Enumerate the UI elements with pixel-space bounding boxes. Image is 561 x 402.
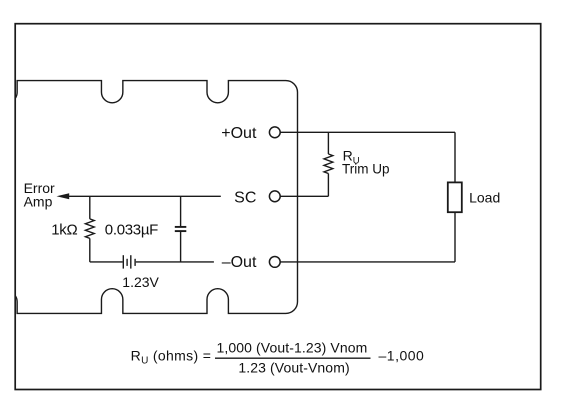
- svg-text:Trim Up: Trim Up: [342, 161, 390, 176]
- svg-text:Amp: Amp: [24, 193, 53, 209]
- svg-text:0.033µF: 0.033µF: [105, 222, 158, 239]
- svg-text:1.23V: 1.23V: [122, 274, 159, 290]
- svg-text:1.23 (Vout-Vnom): 1.23 (Vout-Vnom): [238, 360, 349, 376]
- svg-text:–Out: –Out: [222, 254, 257, 271]
- svg-text:+Out: +Out: [221, 125, 257, 142]
- svg-text:–1,000: –1,000: [379, 348, 425, 364]
- svg-text:1kΩ: 1kΩ: [51, 222, 77, 239]
- svg-text:1,000 (Vout-1.23) Vnom: 1,000 (Vout-1.23) Vnom: [217, 339, 368, 355]
- svg-text:SC: SC: [234, 189, 256, 206]
- svg-text:Load: Load: [469, 190, 500, 206]
